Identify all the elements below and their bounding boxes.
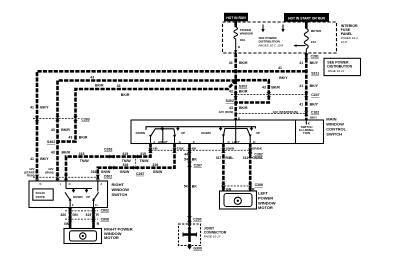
svg-text:I: I (60, 182, 61, 186)
joint connector box (179, 224, 227, 246)
connector line under main switch (148, 149, 252, 151)
svg-text:F: F (72, 203, 74, 207)
svg-text:RIGHT: RIGHT (158, 140, 169, 144)
wire 57 BK ground from switch (184, 144, 198, 227)
solid state module (33, 189, 53, 200)
svg-text:BK/R: BK/R (61, 128, 70, 132)
splice S303 (234, 79, 247, 89)
splice S302 (226, 99, 238, 104)
svg-text:43: 43 (51, 150, 55, 154)
wire 316 GN/W (91, 144, 185, 182)
svg-text:GN/BL: GN/BL (252, 156, 264, 160)
connector C263 on wire 316 (110, 166, 115, 170)
svg-text:BK/Y: BK/Y (40, 157, 49, 161)
connector C362 (248, 152, 263, 158)
svg-text:43: 43 (229, 90, 233, 94)
main window control switch box (131, 120, 324, 144)
svg-text:LEFT: LEFT (232, 140, 241, 144)
svg-text:315: 315 (140, 152, 146, 156)
wire 319 R (85, 208, 99, 229)
wire 43 BK/R loop branch through C247 (236, 80, 269, 102)
svg-text:BK/Y: BK/Y (40, 105, 49, 109)
svg-text:315: 315 (79, 152, 85, 156)
svg-text:315: 315 (122, 152, 128, 156)
svg-text:10-8: 10-8 (341, 40, 347, 44)
splice S402 (47, 140, 59, 144)
connector C306 (221, 183, 263, 192)
svg-text:BK/Y: BK/Y (310, 61, 319, 65)
svg-text:BK/R: BK/R (79, 136, 88, 140)
svg-text:316: 316 (152, 163, 158, 167)
rocker switch right (65, 181, 99, 208)
svg-text:30A: 30A (240, 38, 246, 42)
svg-text:DOWN: DOWN (73, 195, 83, 199)
svg-text:41: 41 (299, 61, 303, 65)
svg-text:(RUN): (RUN) (45, 170, 54, 174)
svg-text:UP: UP (181, 131, 185, 135)
svg-text:41: 41 (299, 102, 303, 106)
svg-text:S302: S302 (226, 99, 234, 103)
svg-text:C606: C606 (101, 217, 109, 221)
connector C267 on wire 315 (133, 154, 138, 158)
svg-text:BK/R: BK/R (239, 106, 248, 110)
pin letters right switch bottom (72, 203, 98, 207)
svg-text:54: 54 (184, 184, 188, 188)
splice S311 (305, 70, 319, 76)
svg-text:BK/Y: BK/Y (279, 76, 288, 80)
svg-text:C263: C263 (104, 147, 112, 151)
connector C290 (187, 216, 202, 221)
svg-text:METER: METER (311, 29, 322, 33)
svg-text:SWITCH: SWITCH (326, 131, 342, 136)
connector C602 above right switch (33, 175, 112, 180)
svg-text:DOWN: DOWN (136, 131, 146, 135)
svg-text:BK/R: BK/R (121, 93, 130, 97)
svg-text:12V (RUN): 12V (RUN) (219, 110, 234, 114)
svg-text:HOT IN RUN: HOT IN RUN (226, 16, 246, 20)
connector C267 on wire 57 (187, 162, 202, 168)
svg-text:319: 319 (85, 213, 91, 217)
svg-text:PAGES 10-7, 10-8: PAGES 10-7, 10-8 (259, 43, 284, 47)
rocker switch right window (136, 129, 185, 144)
connector C281 (304, 54, 319, 59)
svg-text:C247: C247 (311, 93, 319, 97)
label RIGHT WINDOW SWITCH (112, 182, 130, 197)
svg-text:STATE: STATE (36, 195, 45, 199)
svg-text:G300: G300 (193, 247, 202, 251)
wire 317 R/BL (216, 144, 235, 192)
connector C263 (104, 147, 114, 158)
svg-text:C267: C267 (136, 172, 144, 176)
svg-text:UP: UP (256, 131, 260, 135)
pointer arrow from fuse wire (293, 44, 305, 47)
svg-text:41: 41 (30, 157, 34, 161)
svg-text:Y/B: Y/B (153, 147, 159, 151)
svg-text:R/BL: R/BL (225, 156, 234, 160)
svg-text:T/BK: T/BK (177, 147, 185, 151)
svg-text:UP: UP (86, 195, 90, 199)
svg-text:GN/W: GN/W (120, 170, 130, 174)
breaker output pin B (234, 39, 241, 53)
svg-text:BK/R: BK/R (62, 150, 71, 154)
svg-text:43: 43 (90, 75, 94, 79)
internal supply rail (146, 120, 255, 144)
svg-text:C162: C162 (311, 110, 319, 114)
note SEE POWER DISTRIBUTION PAGES 10-7, 10-8 (259, 36, 284, 48)
svg-text:BK/Y: BK/Y (310, 84, 319, 88)
other-circuit arrows (261, 25, 284, 33)
svg-text:43: 43 (68, 136, 72, 140)
wire 320 GN (60, 208, 78, 229)
connector C267 on wire 316 (133, 159, 144, 176)
svg-text:320: 320 (60, 213, 66, 217)
svg-text:54: 54 (184, 158, 188, 162)
svg-text:317: 317 (216, 156, 222, 160)
voltage note 12V (RUN) left (45, 167, 54, 175)
svg-text:PAGE 10-17: PAGE 10-17 (204, 235, 221, 239)
wire 41 BK/Y bus (37, 71, 306, 181)
switch illumination divider (295, 120, 297, 144)
svg-text:C283: C283 (81, 117, 89, 121)
svg-text:SWITCH: SWITCH (112, 192, 128, 197)
svg-text:BK/R: BK/R (239, 90, 248, 94)
svg-text:DOWN: DOWN (201, 131, 211, 135)
label MAIN WINDOW CONTROL SWITCH (326, 117, 346, 137)
svg-text:BK: BK (192, 184, 198, 188)
svg-text:TN/W: TN/W (80, 159, 90, 163)
voltage note 12V (START/RUN) left (24, 167, 36, 178)
interior fuse panel dashed box (223, 22, 337, 53)
svg-text:H: H (95, 203, 97, 207)
pin letters main switch bottom (153, 140, 256, 144)
svg-text:S402: S402 (47, 140, 55, 144)
fuse output wire (305, 49, 307, 55)
label INTERIOR FUSE PANEL (341, 24, 359, 44)
wire tab to fuse (305, 22, 308, 29)
svg-text:TN/W: TN/W (140, 159, 150, 163)
connector C283 (33, 116, 90, 121)
svg-text:BK/R: BK/R (95, 84, 104, 88)
svg-text:GN/W: GN/W (226, 147, 234, 151)
svg-text:15A: 15A (311, 40, 317, 44)
svg-text:316: 316 (122, 163, 128, 167)
wire 311 GN/BL (243, 144, 264, 192)
wire 43 BK/R breaker vertical (234, 53, 237, 120)
pin letters right switch top (40, 182, 103, 186)
svg-text:BK/Y: BK/Y (310, 115, 317, 119)
svg-text:GN/W: GN/W (153, 170, 163, 174)
svg-text:43: 43 (229, 61, 233, 65)
svg-text:43: 43 (262, 85, 266, 89)
svg-text:GN: GN (64, 222, 70, 226)
connector C162 (236, 110, 320, 119)
svg-text:316: 316 (91, 170, 97, 174)
svg-text:MOTOR: MOTOR (258, 205, 273, 210)
svg-text:C362: C362 (254, 152, 262, 156)
svg-text:41: 41 (278, 66, 282, 70)
wire 41 BK/Y fuse vertical (305, 53, 308, 120)
left power window motor (220, 191, 276, 211)
right power window motor (64, 227, 133, 244)
wire 43 BK/R bus3 (58, 80, 236, 141)
svg-text:C290: C290 (193, 217, 201, 221)
svg-text:GN: GN (72, 213, 78, 217)
svg-text:GN/W: GN/W (101, 170, 111, 174)
svg-text:S311: S311 (311, 72, 319, 76)
svg-text:C281: C281 (311, 54, 319, 58)
svg-text:43: 43 (51, 128, 55, 132)
power tab HOT IN RUN (224, 13, 248, 21)
svg-text:41: 41 (30, 105, 34, 109)
svg-text:PAGE 10-11: PAGE 10-11 (328, 69, 345, 73)
svg-text:HOT IN START OR RUN: HOT IN START OR RUN (288, 17, 325, 21)
svg-text:MOTOR: MOTOR (104, 235, 119, 240)
svg-text:WINDOW: WINDOW (240, 31, 253, 35)
power tab HOT IN START OR RUN (284, 13, 329, 22)
note box SEE POWER DISTRIBUTION PAGE 10-11 (324, 58, 361, 75)
svg-text:BK/Y: BK/Y (310, 102, 319, 106)
svg-text:BK/R: BK/R (239, 61, 248, 65)
svg-text:BK/R: BK/R (271, 85, 280, 89)
connector C602 below switch (65, 209, 109, 214)
svg-text:311: 311 (243, 156, 249, 160)
connector C247 (231, 92, 320, 97)
wire tab to breaker (234, 21, 237, 27)
svg-text:C602: C602 (101, 209, 109, 213)
svg-text:43: 43 (117, 84, 121, 88)
wire 315 TN/W (66, 144, 158, 182)
svg-text:41: 41 (299, 84, 303, 88)
svg-text:44: 44 (184, 152, 188, 156)
rocker switch left window (201, 129, 260, 144)
svg-text:C267: C267 (194, 164, 202, 168)
circuit breaker POWER WINDOW 30A (234, 27, 253, 42)
switch illumination (299, 120, 314, 135)
connector C606 (65, 217, 109, 222)
svg-text:BK: BK (192, 158, 198, 162)
wire 43 BK/R bus2 (58, 81, 236, 182)
ground G300 (187, 244, 202, 251)
svg-text:BR/BK: BR/BK (252, 147, 262, 151)
svg-text:C602: C602 (104, 175, 112, 179)
svg-text:C306: C306 (255, 183, 263, 187)
right window switch box (29, 181, 108, 208)
svg-text:S303: S303 (239, 84, 247, 88)
fuse METER 15A (304, 29, 322, 50)
svg-text:TION: TION (303, 131, 310, 135)
